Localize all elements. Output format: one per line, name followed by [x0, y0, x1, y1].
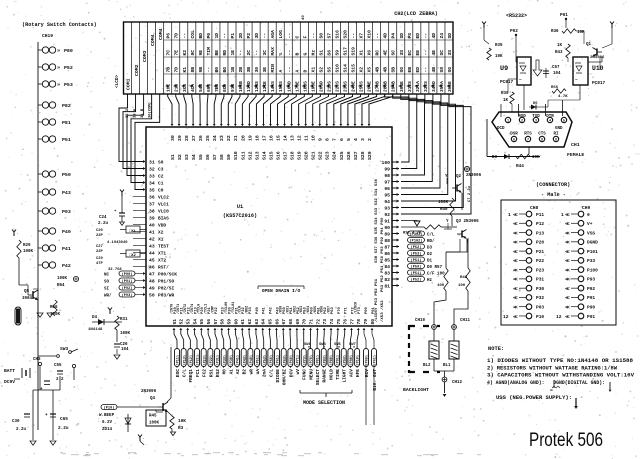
svg-text:COM2: COM2 — [134, 64, 140, 76]
svg-text:FC1: FC1 — [195, 369, 201, 377]
svg-text:P13: P13 — [536, 230, 544, 236]
svg-text:57: 57 — [213, 319, 219, 325]
svg-text:104: 104 — [553, 72, 561, 76]
svg-text:15: 15 — [275, 135, 281, 141]
svg-text:≪: ≪ — [565, 286, 570, 292]
svg-text:(P93): (P93) — [342, 355, 347, 366]
svg-text:S1: S1 — [318, 50, 324, 56]
svg-text:/KS0: /KS0 — [279, 306, 284, 314]
svg-text:P93: P93 — [587, 277, 595, 283]
svg-text:S25: S25 — [339, 151, 345, 160]
svg-text:R40: R40 — [440, 208, 448, 212]
svg-text:22: 22 — [226, 135, 232, 141]
svg-text:R35: R35 — [495, 44, 503, 48]
svg-text:100: 100 — [382, 160, 391, 166]
svg-text:CH2(LCD ZEBRA): CH2(LCD ZEBRA) — [394, 11, 438, 17]
svg-text:SC: SC — [439, 50, 445, 56]
svg-text:P32: P32 — [536, 295, 544, 301]
svg-text:80: 80 — [370, 319, 376, 325]
svg-text:C67: C67 — [552, 66, 560, 70]
svg-text:8CD: 8CD — [222, 84, 228, 92]
svg-text:S2: S2 — [318, 67, 324, 73]
svg-text:3: 3 — [360, 138, 366, 141]
svg-text:S7: S7 — [212, 154, 218, 160]
svg-text:P33: P33 — [587, 258, 595, 264]
svg-text:TIM: TIM — [206, 47, 212, 56]
svg-text:3B: 3B — [246, 67, 252, 73]
svg-text:S5: S5 — [198, 154, 204, 160]
svg-text:43: 43 — [149, 244, 155, 250]
svg-text:/INT2: /INT2 — [183, 304, 188, 314]
svg-text:3E: 3E — [262, 67, 268, 73]
svg-text:P53: P53 — [64, 82, 73, 88]
svg-text:EC: EC — [407, 50, 413, 56]
svg-text:9E: 9E — [198, 50, 204, 56]
svg-text:34: 34 — [149, 181, 155, 187]
svg-text:X1: X1 — [158, 237, 164, 243]
svg-text:8C: 8C — [190, 50, 196, 56]
svg-text:83: 83 — [384, 271, 390, 277]
svg-text:CH19: CH19 — [42, 33, 53, 39]
svg-text:.: . — [125, 192, 127, 196]
svg-text:Q3 2N3906: Q3 2N3906 — [456, 220, 479, 224]
svg-text:S0: S0 — [318, 33, 324, 39]
svg-text:32: 32 — [149, 167, 155, 173]
svg-text:--: -- — [287, 50, 292, 56]
svg-text:≪: ≪ — [513, 240, 518, 246]
svg-text:/KS1: /KS1 — [285, 306, 290, 314]
svg-text:2: 2 — [521, 120, 523, 124]
svg-text:»: » — [57, 65, 60, 71]
svg-text:(P41): (P41) — [236, 355, 241, 366]
svg-text:Hz: Hz — [310, 50, 316, 56]
svg-text:4B: 4B — [431, 67, 437, 73]
svg-text:55: 55 — [199, 319, 205, 325]
svg-text:~: ~ — [575, 78, 578, 83]
svg-text:RS2: RS2 — [215, 369, 221, 377]
svg-text:(P83): (P83) — [322, 355, 327, 366]
svg-text:86: 86 — [384, 251, 390, 257]
svg-text:BG: BG — [222, 67, 228, 73]
svg-text:/INT0: /INT0 — [169, 304, 174, 314]
svg-text:S23: S23 — [325, 151, 331, 160]
svg-text:OHM/BZ: OHM/BZ — [282, 369, 288, 386]
svg-text:(P61): (P61) — [373, 355, 378, 366]
svg-text:.: . — [615, 24, 617, 28]
svg-text:72: 72 — [315, 319, 321, 325]
svg-text:%: % — [278, 53, 284, 56]
svg-text:S14: S14 — [343, 64, 349, 73]
svg-text:22P: 22P — [96, 250, 104, 254]
svg-text:LIGHT: LIGHT — [342, 369, 348, 383]
svg-text:26: 26 — [198, 135, 204, 141]
svg-text:37: 37 — [149, 202, 155, 208]
svg-text:87: 87 — [384, 245, 390, 251]
svg-text:P00/SCK: P00/SCK — [158, 272, 177, 278]
svg-text:104: 104 — [121, 348, 129, 352]
svg-text:11: 11 — [304, 135, 310, 141]
svg-text:(P52): (P52) — [411, 245, 422, 250]
svg-text:S8: S8 — [219, 154, 225, 160]
svg-text:S21: S21 — [311, 151, 317, 160]
svg-text:100K: 100K — [120, 332, 131, 336]
svg-text:≪: ≪ — [513, 314, 518, 320]
svg-text:12: 12 — [297, 135, 303, 141]
svg-text:/CMP: /CMP — [210, 306, 215, 314]
svg-text:PC817: PC817 — [500, 80, 514, 85]
svg-text:/TCL01: /TCL01 — [231, 302, 236, 314]
svg-text:B2: B2 — [242, 369, 248, 375]
svg-text:CH12: CH12 — [452, 381, 463, 385]
svg-text:94: 94 — [384, 199, 390, 205]
svg-text:DSR: DSR — [510, 133, 518, 137]
svg-text:89: 89 — [384, 232, 390, 238]
svg-text:18: 18 — [254, 135, 260, 141]
svg-text:(P91): (P91) — [336, 355, 341, 366]
svg-text:≪: ≪ — [513, 230, 518, 236]
svg-text:D4: D4 — [92, 316, 98, 320]
svg-text:2.2u: 2.2u — [98, 222, 109, 226]
svg-text:66: 66 — [274, 319, 280, 325]
svg-text:61: 61 — [240, 319, 246, 325]
svg-text:58: 58 — [220, 319, 226, 325]
svg-text:SW5: SW5 — [334, 343, 342, 347]
svg-text:S27: S27 — [353, 151, 359, 160]
svg-text:C/L: C/L — [427, 232, 435, 237]
svg-text:(P21): (P21) — [196, 355, 201, 366]
svg-text:1: 1 — [507, 120, 509, 124]
svg-text:VSS: VSS — [587, 230, 595, 236]
svg-text:2) RESISTORS WITHOUT WATTAGE R: 2) RESISTORS WITHOUT WATTAGE RATING:1/8W — [487, 365, 618, 371]
svg-text:A: A — [294, 70, 300, 73]
svg-text:CTS: CTS — [538, 133, 546, 137]
svg-text:S3: S3 — [184, 154, 190, 160]
svg-text:31 B: 31 B — [141, 108, 145, 118]
svg-text:47P: 47P — [96, 262, 104, 266]
svg-text:21B: 21B — [174, 84, 180, 92]
svg-text:P03: P03 — [536, 305, 544, 311]
svg-text:--: -- — [255, 50, 260, 56]
svg-text:P22: P22 — [536, 258, 544, 264]
svg-text:3D: 3D — [254, 33, 260, 39]
svg-text:/KS7: /KS7 — [326, 306, 331, 314]
svg-text:S11: S11 — [240, 151, 246, 160]
svg-text:(P91): (P91) — [122, 279, 133, 284]
svg-text:WR/: WR/ — [104, 294, 112, 299]
svg-text:K1: K1 — [182, 67, 188, 73]
svg-text:BATT: BATT — [4, 368, 15, 374]
svg-text:AGA: AGA — [270, 30, 276, 39]
svg-text:C/F 100: C/F 100 — [427, 271, 445, 276]
svg-text:(P12): (P12) — [189, 355, 194, 366]
svg-text:X5: X5 — [367, 67, 373, 73]
svg-text:P12: P12 — [536, 221, 544, 227]
svg-text:(P90): (P90) — [349, 355, 354, 366]
svg-text:ZD14: ZD14 — [102, 428, 113, 432]
svg-text:74: 74 — [329, 319, 335, 325]
svg-text:76: 76 — [343, 319, 349, 325]
svg-text:33 A: 33 A — [134, 108, 138, 118]
svg-text:45: 45 — [149, 258, 155, 264]
svg-text:CH10: CH10 — [415, 319, 426, 323]
svg-text:97: 97 — [384, 180, 390, 186]
svg-text:□X2: □X2 — [129, 253, 137, 258]
svg-text:MIN: MIN — [270, 64, 276, 73]
svg-text:P11: P11 — [536, 212, 544, 218]
svg-text:S10: S10 — [233, 151, 239, 160]
svg-text:P03: P03 — [62, 209, 71, 215]
svg-text:FUNC: FUNC — [302, 369, 308, 380]
svg-text:P101: P101 — [587, 249, 598, 255]
svg-text:36: 36 — [149, 195, 155, 201]
svg-text:RI: RI — [553, 133, 559, 137]
svg-text:/LCDCK: /LCDCK — [354, 301, 359, 314]
svg-text:U10: U10 — [592, 65, 604, 72]
svg-text:78: 78 — [356, 319, 362, 325]
svg-text:COM4: COM4 — [150, 34, 156, 46]
svg-text:S9: S9 — [334, 50, 340, 56]
svg-text:9: 9 — [318, 138, 324, 141]
svg-text:79: 79 — [363, 319, 369, 325]
svg-text:S19: S19 — [297, 151, 303, 160]
svg-text:4: 4 — [353, 138, 359, 141]
svg-text:35: 35 — [149, 188, 155, 194]
svg-text:7EB: 7EB — [214, 84, 220, 92]
svg-text:S6: S6 — [326, 50, 332, 56]
svg-text:NC: NC — [104, 274, 110, 278]
svg-text:SW7: SW7 — [349, 343, 357, 347]
svg-text:A1: A1 — [228, 369, 234, 375]
svg-text:30: 30 — [254, 67, 260, 73]
svg-text:S0: S0 — [158, 160, 164, 166]
svg-text:C7 2.2u: C7 2.2u — [468, 185, 472, 202]
svg-text:9: 9 — [555, 139, 557, 143]
svg-text:2D: 2D — [238, 33, 244, 39]
svg-text:DCD: DCD — [497, 127, 505, 131]
svg-text:17: 17 — [261, 135, 267, 141]
svg-text:U9: U9 — [500, 65, 508, 73]
svg-text:13: 13 — [290, 135, 296, 141]
svg-text:92: 92 — [384, 212, 390, 218]
svg-text:S38 S37 S36 S35 S34 S33 S32 S3: S38 S37 S36 S35 S34 S33 S32 S31 S30 — [375, 178, 379, 263]
svg-text:6: 6 — [339, 138, 345, 141]
svg-text:C/L: C/L — [182, 369, 188, 377]
svg-text:4E: 4E — [383, 50, 389, 56]
svg-text:RD/: RD/ — [427, 239, 435, 244]
svg-text:S22: S22 — [318, 151, 324, 160]
svg-text:X10: X10 — [367, 30, 373, 39]
svg-text:RST/: RST/ — [158, 265, 169, 271]
svg-text:USS (NEG.POWER SUPPLY):: USS (NEG.POWER SUPPLY): — [496, 395, 572, 401]
svg-text:/KS6: /KS6 — [320, 306, 325, 314]
svg-text:24: 24 — [212, 135, 218, 141]
svg-text:3C: 3C — [262, 50, 268, 56]
svg-text:R30: R30 — [501, 92, 509, 96]
svg-text:63: 63 — [254, 319, 260, 325]
svg-text:A2: A2 — [235, 369, 241, 375]
svg-text:2.2u: 2.2u — [16, 428, 27, 432]
svg-text:14: 14 — [282, 135, 288, 141]
svg-text:~: ~ — [519, 78, 522, 83]
svg-text:R3: R3 — [178, 426, 184, 431]
svg-text:P31: P31 — [536, 277, 544, 283]
svg-text:85: 85 — [384, 258, 390, 264]
svg-text:P02/SI: P02/SI — [158, 286, 175, 292]
svg-text:S16: S16 — [334, 30, 340, 39]
svg-text:3) CAPACITORS WITHOUT WITHSTAN: 3) CAPACITORS WITHOUT WITHSTANDING VOLT:… — [487, 373, 635, 379]
svg-text:/KS2: /KS2 — [292, 306, 297, 314]
svg-text:BL2: BL2 — [423, 364, 431, 368]
svg-text:+: + — [45, 413, 48, 418]
svg-text:1D: 1D — [214, 33, 220, 39]
svg-text:100K: 100K — [23, 250, 34, 254]
svg-text:21: 21 — [233, 135, 239, 141]
svg-text:4CA: 4CA — [190, 84, 196, 92]
svg-text:/X53 /X52: /X53 /X52 — [380, 300, 385, 322]
svg-text:ACV: ACV — [348, 369, 354, 377]
svg-text:77: 77 — [349, 319, 355, 325]
svg-text:10E: 10E — [166, 84, 172, 92]
svg-text:71: 71 — [308, 319, 314, 325]
svg-text:P81: P81 — [62, 120, 71, 126]
svg-text:(P52): (P52) — [411, 277, 422, 282]
svg-text:P63: P63 — [331, 306, 335, 314]
svg-text:2N3906: 2N3906 — [466, 174, 482, 178]
svg-text:/TCL0: /TCL0 — [197, 304, 202, 314]
svg-text:1: 1 — [508, 212, 511, 218]
svg-text:RCV: RCV — [364, 369, 370, 377]
svg-text:44: 44 — [149, 251, 155, 257]
svg-text:33: 33 — [149, 174, 155, 180]
svg-text:/KS5: /KS5 — [313, 306, 318, 314]
svg-text:--: -- — [424, 67, 429, 73]
svg-text:MAX: MAX — [270, 47, 276, 56]
svg-text:P71: P71 — [345, 306, 349, 314]
svg-text:31: 31 — [149, 160, 155, 166]
svg-text:VLC1: VLC1 — [158, 202, 169, 208]
svg-text:30(COM): 30(COM) — [148, 102, 153, 118]
svg-text:C27: C27 — [96, 245, 104, 249]
svg-text:COM3: COM3 — [142, 50, 148, 62]
svg-text:M0: M0 — [222, 369, 228, 375]
svg-text:42: 42 — [149, 237, 155, 243]
svg-text:81: 81 — [384, 284, 390, 290]
svg-text:--: -- — [287, 33, 292, 39]
svg-text:(P10): (P10) — [356, 355, 361, 366]
svg-text:.: . — [17, 232, 19, 236]
svg-text:--: -- — [311, 33, 316, 39]
svg-text:68: 68 — [288, 319, 294, 325]
svg-text:64: 64 — [261, 319, 267, 325]
svg-text:SI: SI — [104, 288, 110, 292]
svg-text:SB: SB — [391, 67, 397, 73]
svg-text:7D: 7D — [174, 67, 180, 73]
svg-text:≪: ≪ — [565, 267, 570, 273]
svg-text:P33: P33 — [249, 306, 253, 314]
svg-text:B10. OUT: B10. OUT — [372, 369, 378, 391]
svg-text:U1: U1 — [237, 204, 243, 210]
svg-text:≪: ≪ — [513, 258, 518, 264]
svg-text:49: 49 — [149, 286, 155, 292]
svg-text:R31: R31 — [120, 318, 128, 322]
svg-text:P02: P02 — [510, 29, 518, 34]
svg-text:S13: S13 — [254, 151, 260, 160]
svg-text:4D: 4D — [383, 33, 389, 39]
svg-text:69: 69 — [295, 319, 301, 325]
svg-text:P30: P30 — [536, 286, 544, 292]
svg-text:RD: RD — [222, 50, 228, 56]
svg-text:≪: ≪ — [565, 221, 570, 227]
svg-text:(P23): (P23) — [202, 355, 207, 366]
svg-text:91: 91 — [384, 219, 390, 225]
svg-text:99: 99 — [384, 167, 390, 173]
svg-text:HFE: HFE — [355, 369, 361, 377]
svg-text:7: 7 — [527, 139, 529, 143]
svg-text:SG: SG — [447, 67, 453, 73]
svg-text:29: 29 — [177, 135, 183, 141]
svg-text:(P61): (P61) — [276, 355, 281, 366]
svg-text:/CLR: /CLR — [238, 305, 243, 314]
svg-text:SW3: SW3 — [60, 346, 69, 352]
svg-text:20: 20 — [240, 135, 246, 141]
svg-text:S20: S20 — [343, 30, 349, 39]
svg-text:CH3: CH3 — [33, 358, 41, 362]
svg-text:G: G — [302, 53, 308, 56]
svg-text:≪: ≪ — [565, 212, 570, 218]
svg-text:7D: 7D — [174, 33, 180, 39]
svg-text:1N4148: 1N4148 — [88, 328, 103, 332]
svg-text:X1: X1 — [359, 50, 365, 56]
svg-text:≪: ≪ — [513, 286, 518, 292]
svg-text:3CS: 3CS — [182, 84, 188, 92]
svg-text:C3: C3 — [158, 167, 164, 173]
svg-text:(P53): (P53) — [262, 355, 267, 366]
svg-text:S15: S15 — [351, 64, 357, 73]
svg-text:D1: D1 — [427, 259, 433, 263]
svg-text:A: A — [278, 70, 284, 73]
svg-text:BD: BD — [198, 33, 204, 39]
svg-text:SC: SC — [391, 50, 397, 56]
svg-text:XT1: XT1 — [158, 251, 166, 257]
svg-text:Protek 506: Protek 506 — [529, 430, 603, 451]
svg-text:/LCDSY P63 P62 P61: /LCDSY P63 P62 P61 — [374, 278, 379, 322]
svg-text:P73: P73 — [358, 306, 362, 314]
svg-text:S5: S5 — [326, 67, 332, 73]
svg-text:D2: D2 — [427, 253, 433, 257]
svg-text:≪: ≪ — [513, 221, 518, 227]
svg-text:F: F — [302, 36, 308, 39]
svg-text:10: 10 — [311, 135, 317, 141]
svg-text:CH11: CH11 — [460, 319, 471, 323]
svg-text:1: 1 — [561, 212, 564, 218]
svg-text:10K: 10K — [178, 419, 186, 424]
svg-text:7B: 7B — [166, 67, 172, 73]
svg-text:27: 27 — [191, 135, 197, 141]
svg-text:(P102): (P102) — [410, 238, 423, 243]
svg-text:⥈: ⥈ — [550, 389, 553, 393]
svg-text:X6: X6 — [367, 50, 373, 56]
svg-text:(P30): (P30) — [229, 355, 234, 366]
svg-text:40: 40 — [149, 223, 155, 229]
svg-text:S1: S1 — [170, 154, 176, 160]
svg-text:R20: R20 — [23, 244, 31, 248]
svg-text:SW3: SW3 — [319, 343, 327, 347]
svg-text:/TCL00: /TCL00 — [224, 302, 229, 314]
svg-text:C24: C24 — [99, 216, 107, 220]
svg-text:2: 2 — [367, 138, 373, 141]
svg-text:16: 16 — [268, 135, 274, 141]
svg-text:84: 84 — [384, 264, 390, 270]
